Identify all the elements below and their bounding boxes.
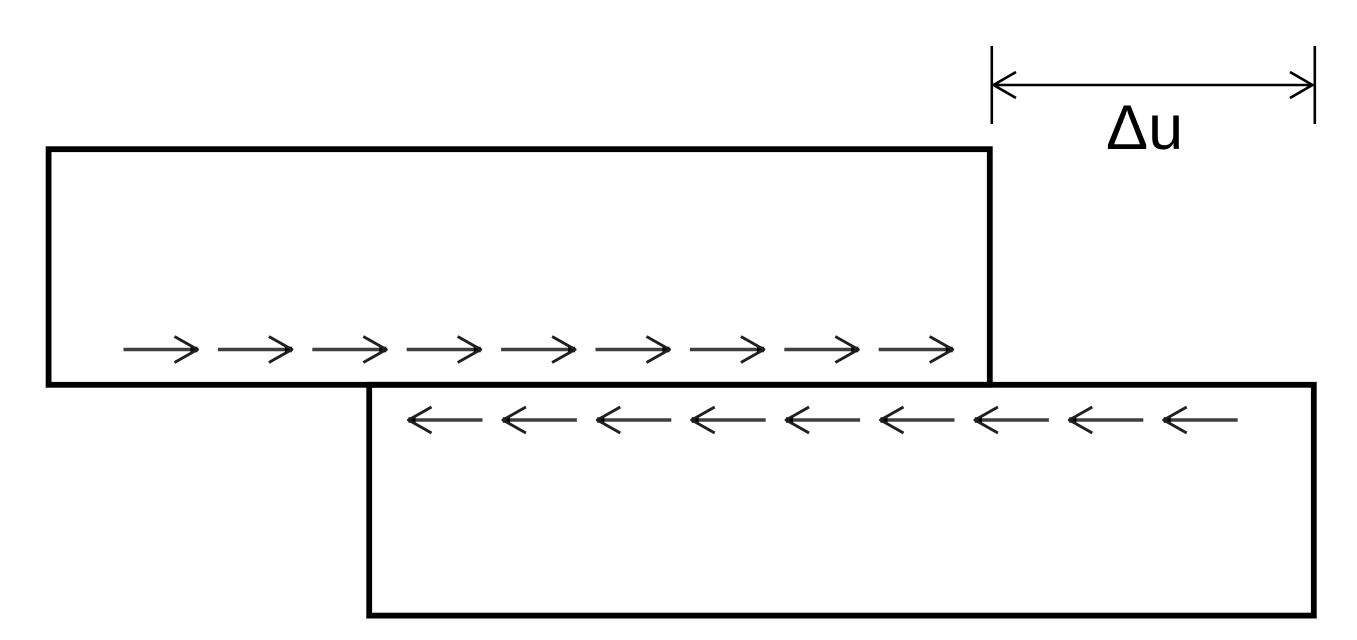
left arrow 4 [692,407,766,433]
dimension arrowhead right [1290,72,1313,98]
right arrow 8 [784,337,858,363]
dimension arrowhead left [994,72,1017,98]
left arrow 7 [975,407,1049,433]
dimension double arrow line [994,84,1312,87]
right arrow 6 [596,337,670,363]
left arrow 9 [1164,407,1238,433]
right arrow 7 [690,337,764,363]
dimension tick right [1314,46,1317,124]
svg-text:Δu: Δu [1106,93,1183,163]
right arrow 3 [312,337,386,363]
left arrow 1 [409,407,483,433]
dimension tick left [990,46,993,124]
right arrow 9 [879,337,953,363]
left arrow 3 [597,407,671,433]
left arrow 5 [786,407,860,433]
right arrow 1 [124,337,198,363]
right arrow 2 [218,337,292,363]
right arrow 5 [501,337,575,363]
left arrow 8 [1069,407,1143,433]
upper block [49,149,990,385]
left arrow 6 [881,407,955,433]
right arrow 4 [407,337,481,363]
left arrow 2 [503,407,577,433]
lower block [369,385,1314,616]
